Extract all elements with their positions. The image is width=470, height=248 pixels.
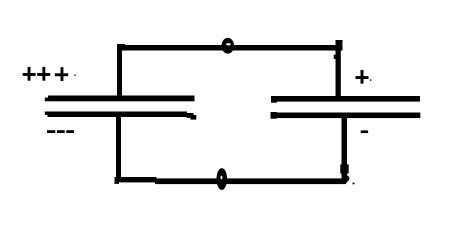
capacitor (left) top plate	[48, 96, 195, 102]
label: "+" polarity mark at right capacitor	[356, 70, 369, 84]
wire: hook at bottom of right lead	[343, 175, 349, 181]
stray dot after right "+"	[370, 79, 371, 81]
wire: right capacitor top lead (vertical, rises above top wire)	[336, 40, 341, 97]
wire: bulge on right bottom lead	[340, 164, 348, 173]
wire: bottom bus right segment	[155, 178, 346, 184]
wire: right capacitor bottom lead (vertical)	[342, 117, 348, 181]
wire: bottom bus left segment	[115, 177, 157, 182]
capacitor (right) bottom plate	[271, 113, 421, 119]
label: "+" sign 3 of "+++"	[55, 67, 68, 81]
capacitor (right) top plate	[271, 96, 420, 102]
junction dot near bottom-right corner	[353, 183, 355, 185]
node: positive terminal circle on top wire	[222, 38, 235, 54]
node: negative terminal ellipse on bottom wire	[217, 168, 228, 190]
label: "-" polarity mark at right capacitor	[361, 130, 368, 133]
wire: left capacitor top lead (vertical)	[117, 45, 122, 97]
wire: left capacitor bottom lead (vertical)	[116, 117, 121, 179]
wire: small step at top-left corner	[117, 44, 125, 45]
label: "---" minus marks under left capacitor	[47, 130, 74, 133]
label: "+" sign 2 of "+++"	[37, 67, 50, 81]
wire: cap bump at top of right lead	[336, 40, 343, 45]
label: "+" sign 1 of "+++" (top-left polarity marks)	[23, 67, 36, 81]
wire: small bump on left of right lead	[334, 55, 336, 59]
stray dot after "+++"	[74, 75, 76, 77]
wire: small foot at bottom-left corner	[115, 182, 120, 184]
wire: top horizontal bus from left capacitor lead to right capacitor lead	[117, 45, 343, 51]
capacitor (left) bottom plate	[48, 112, 188, 118]
